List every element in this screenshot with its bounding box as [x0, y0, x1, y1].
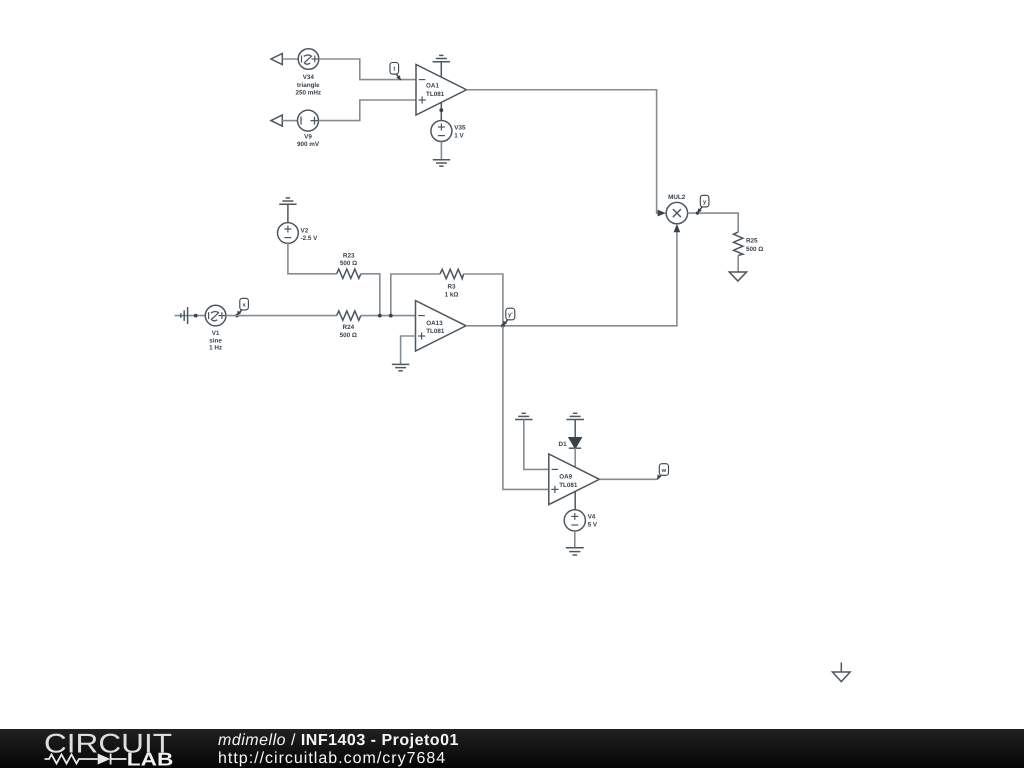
- port P2: [271, 115, 282, 126]
- svg-text:LAB: LAB: [127, 748, 174, 768]
- resistor R3 1k: [440, 269, 464, 278]
- svg-text:TL081: TL081: [426, 328, 445, 335]
- svg-text:1 kΩ: 1 kΩ: [445, 291, 459, 298]
- svg-text:TL081: TL081: [559, 482, 578, 489]
- source V34 (triangle 250 mHz): [298, 49, 319, 70]
- svg-text:1 Hz: 1 Hz: [209, 344, 222, 351]
- source V9 (900 mV): [298, 110, 319, 131]
- svg-text:5 V: 5 V: [588, 522, 598, 529]
- svg-text:R25: R25: [746, 238, 758, 245]
- svg-text:OA1: OA1: [426, 83, 439, 90]
- ground (left of V1): [175, 307, 206, 324]
- resistor R25 500 (vertical): [734, 232, 743, 255]
- wire V4 to ground: [574, 531, 576, 548]
- svg-text:V1: V1: [212, 330, 220, 337]
- diode D1: [569, 438, 581, 467]
- op-amp OA9 TL081: [549, 454, 600, 510]
- wire OA13 output to MUL2 bottom input: [466, 227, 677, 326]
- ground below OA13 plus: [392, 364, 409, 370]
- ground (inverted) above V2: [279, 198, 296, 223]
- ground (inverted) for OA9 minus: [515, 413, 549, 469]
- wire V1 to R24: [226, 315, 337, 317]
- flag y: [696, 195, 709, 214]
- svg-text:V4: V4: [588, 514, 596, 521]
- wire output node down to OA9 plus: [503, 326, 549, 490]
- svg-text:250 mHz: 250 mHz: [296, 90, 322, 97]
- wire OA13 plus to ground: [401, 336, 416, 364]
- wire OA1 output to MUL2 left input: [467, 90, 664, 213]
- logo resistor-diode graphic: [45, 754, 127, 765]
- wire V2 down to R23: [288, 243, 337, 273]
- svg-text:900 mV: 900 mV: [297, 141, 320, 148]
- junction R3 node: [389, 314, 393, 318]
- svg-text:D1: D1: [559, 441, 568, 448]
- svg-text:OA9: OA9: [559, 473, 572, 480]
- label V9: [297, 134, 320, 149]
- op-amp OA13 TL081: [416, 301, 467, 351]
- source V2 (-2.5 V): [278, 223, 299, 244]
- svg-text:y': y': [508, 312, 513, 318]
- flag x: [235, 298, 248, 317]
- svg-text:R24: R24: [343, 324, 355, 331]
- svg-text:TL081: TL081: [426, 91, 445, 98]
- arrowhead into MUL2 bottom: [674, 224, 681, 232]
- wire R23 to input node: [361, 274, 380, 316]
- source V35 (1 V): [431, 121, 452, 142]
- ground (node) lone bottom right: [833, 662, 851, 681]
- svg-text:R3: R3: [447, 284, 456, 291]
- ground (node) below R25: [729, 272, 746, 281]
- junction output node: [501, 324, 505, 328]
- svg-text:V35: V35: [454, 125, 466, 132]
- svg-text:OA13: OA13: [426, 320, 443, 327]
- wire OA9 output to flag w: [599, 478, 657, 480]
- ground below V35: [433, 160, 450, 166]
- wire V9 to OA1 plus input: [319, 100, 416, 121]
- svg-text:500 Ω: 500 Ω: [746, 246, 763, 253]
- ground (inverted) above OA1: [433, 55, 450, 61]
- wire P1 to V34: [282, 58, 298, 60]
- svg-text:V9: V9: [304, 134, 312, 141]
- wire P2 to V9: [282, 120, 297, 122]
- resistor R23 500: [337, 269, 361, 278]
- label V34: [296, 74, 322, 97]
- source V1 (sine 1 Hz): [205, 305, 226, 326]
- svg-text:-2.5 V: -2.5 V: [301, 235, 319, 242]
- resistor R24 500: [337, 311, 361, 320]
- svg-text:R23: R23: [343, 252, 355, 259]
- svg-text:MUL2: MUL2: [668, 194, 686, 201]
- svg-text:500 Ω: 500 Ω: [340, 260, 357, 267]
- svg-text:500 Ω: 500 Ω: [340, 332, 357, 339]
- flag w: [657, 464, 668, 480]
- wire V34 to OA1 minus input: [319, 59, 416, 80]
- svg-text:mdimello / INF1403 - Projeto01: mdimello / INF1403 - Projeto01: [218, 732, 459, 749]
- wire R25 to node ground: [737, 255, 739, 272]
- source V4 (5 V): [564, 510, 585, 531]
- svg-text:V34: V34: [303, 74, 315, 81]
- op-amp OA1 TL081: [416, 62, 467, 121]
- ground (inverted) above D1: [566, 413, 584, 438]
- wire R3 right leg: [464, 274, 503, 326]
- svg-text:t: t: [393, 67, 395, 73]
- svg-text:triangle: triangle: [297, 82, 320, 89]
- junction V1 ground: [194, 314, 198, 318]
- svg-text:http://circuitlab.com/cry7684: http://circuitlab.com/cry7684: [218, 750, 446, 767]
- svg-text:V2: V2: [301, 227, 309, 234]
- wire V35 to ground: [440, 142, 442, 160]
- ground below V4: [566, 548, 584, 555]
- junction R23 node: [378, 314, 382, 318]
- flag t: [390, 63, 401, 81]
- multiplier MUL2: [666, 202, 687, 223]
- arrowhead into MUL2 left: [658, 210, 666, 217]
- junction on OA1 V- pin: [439, 108, 443, 112]
- flag y': [503, 308, 515, 326]
- wire R3 left leg: [391, 274, 440, 316]
- wire MUL2 output to R25: [688, 213, 739, 232]
- svg-text:1 V: 1 V: [454, 133, 464, 140]
- svg-text:w: w: [661, 468, 667, 474]
- wire R24 to OA13 minus input: [361, 315, 416, 317]
- port P1: [271, 53, 282, 64]
